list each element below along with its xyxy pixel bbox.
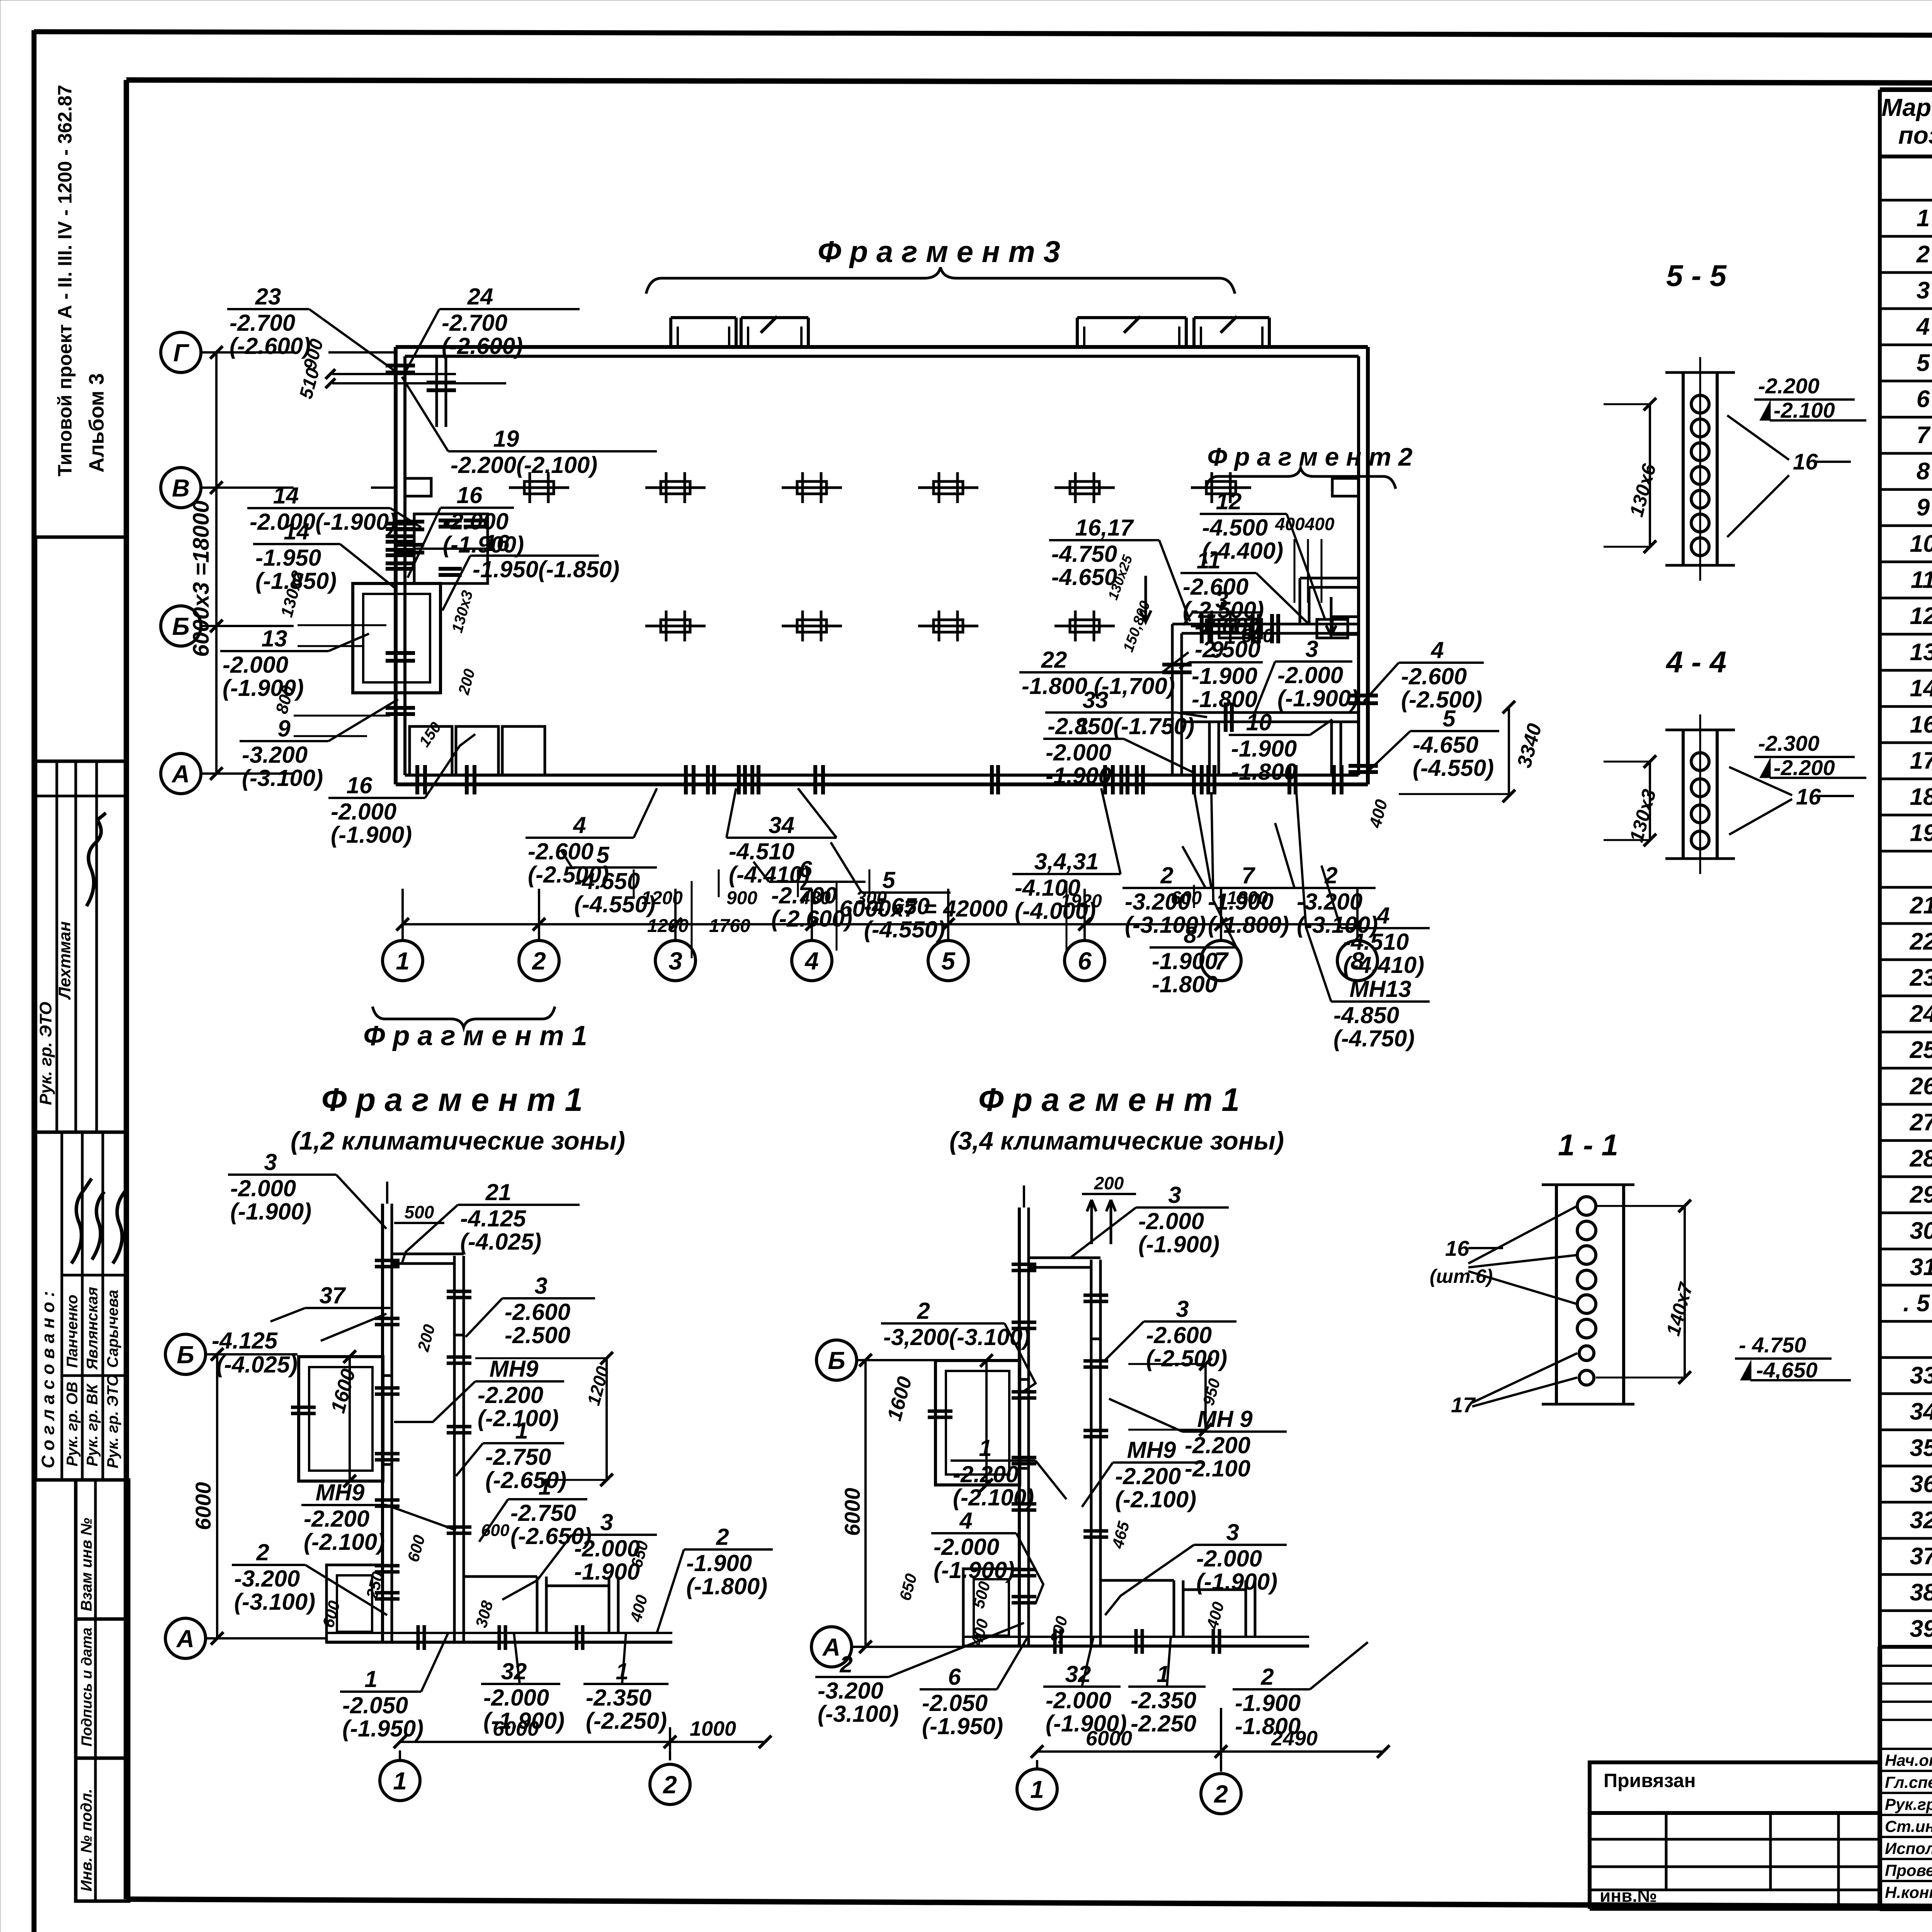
- section 4 - 4: [1665, 645, 1735, 874]
- svg-text:400400: 400400: [1275, 514, 1335, 534]
- svg-text:-4,650: -4,650: [1756, 1358, 1818, 1382]
- svg-text:26: 26: [1910, 1073, 1932, 1100]
- svg-text:1: 1: [515, 1418, 528, 1444]
- svg-text:Б: Б: [177, 1341, 194, 1369]
- svg-text:-2.000(-1.900): -2.000(-1.900): [250, 509, 396, 535]
- svg-text:33: 33: [1083, 687, 1109, 713]
- svg-text:(-4.410): (-4.410): [1343, 952, 1424, 978]
- svg-text:(-1.900): (-1.900): [1277, 685, 1359, 711]
- svg-text:5: 5: [596, 842, 610, 868]
- svg-text:4: 4: [959, 1508, 972, 1534]
- frag1R annotation 4: [931, 1508, 1043, 1604]
- svg-text:Гл.спец.: Гл.спец.: [1885, 1773, 1932, 1791]
- svg-text:(1,2 климатические зоны): (1,2 климатические зоны): [291, 1126, 625, 1155]
- svg-text:23: 23: [1910, 964, 1932, 991]
- annotation 5 bottom: [561, 842, 657, 917]
- svg-text:16: 16: [1793, 449, 1818, 474]
- annotation 4 bottom: [526, 788, 657, 888]
- svg-text:16: 16: [484, 530, 510, 556]
- svg-text:Г: Г: [173, 339, 189, 367]
- svg-text:Ф р а г м е н т 1: Ф р а г м е н т 1: [321, 1082, 583, 1118]
- svg-text:-2.700: -2.700: [442, 310, 507, 336]
- svg-text:-2.100: -2.100: [1185, 1456, 1250, 1481]
- svg-text:1200: 1200: [641, 888, 683, 908]
- svg-text:28: 28: [1910, 1145, 1932, 1172]
- plan grid row circles: [161, 332, 294, 794]
- svg-text:-2.000: -2.000: [1138, 1208, 1204, 1234]
- annotation 24: [405, 284, 580, 373]
- svg-text:-2.050: -2.050: [342, 1692, 408, 1718]
- svg-text:-2.300: -2.300: [1758, 731, 1820, 755]
- svg-text:-4.500: -4.500: [1202, 515, 1268, 541]
- svg-text:16: 16: [347, 772, 372, 798]
- svg-text:4: 4: [1916, 313, 1930, 340]
- svg-text:Панченко: Панченко: [64, 1294, 81, 1368]
- svg-text:1: 1: [396, 947, 410, 975]
- svg-text:Лехтман: Лехтман: [55, 921, 74, 1000]
- svg-text:-3.200: -3.200: [242, 742, 308, 768]
- frag1R annotation МН9: [1109, 1399, 1287, 1481]
- svg-text:14: 14: [284, 519, 310, 544]
- title block signature table: [1880, 1647, 1932, 1909]
- svg-text:Ф р а г м е н т 2: Ф р а г м е н т 2: [1207, 442, 1413, 471]
- svg-text:9: 9: [1917, 494, 1930, 521]
- svg-text:(-1.950): (-1.950): [342, 1716, 423, 1742]
- annotation 2b bottom: [1275, 823, 1378, 938]
- svg-text:(-2.100): (-2.100): [1115, 1486, 1196, 1512]
- svg-text:-2.600: -2.600: [505, 1299, 570, 1325]
- svg-text:поз.: поз.: [1898, 121, 1932, 149]
- column cross symbols row В: [509, 472, 1251, 503]
- svg-text:-2.600: -2.600: [1146, 1322, 1212, 1348]
- specification table grid: [1880, 90, 1932, 1647]
- svg-text:-2.850(-1.750): -2.850(-1.750): [1048, 713, 1194, 739]
- left margin boxes: [36, 537, 127, 1132]
- svg-text:6: 6: [1917, 386, 1930, 412]
- svg-text:-2.100: -2.100: [1774, 398, 1835, 422]
- svg-text:1: 1: [393, 1767, 407, 1795]
- fragment-1 right bottom dims: [1017, 1708, 1389, 1814]
- svg-text:2: 2: [1916, 241, 1930, 268]
- svg-text:1 - 1: 1 - 1: [1558, 1128, 1618, 1162]
- bottom dimension line 6000x7=42000: [396, 896, 1364, 930]
- svg-text:(-1.900): (-1.900): [1138, 1231, 1219, 1257]
- svg-text:19: 19: [1910, 820, 1932, 847]
- svg-text:Исполн.: Исполн.: [1885, 1839, 1932, 1857]
- svg-text:14: 14: [273, 483, 299, 509]
- table header texts: [1881, 94, 1932, 150]
- svg-text:2: 2: [917, 1298, 930, 1324]
- frag1L annotation 32 bottom: [481, 1633, 565, 1734]
- svg-text:11: 11: [1911, 566, 1932, 593]
- frag1L annotation 1b: [479, 1474, 592, 1549]
- svg-text:С о г л а с о в а н о :: С о г л а с о в а н о :: [38, 1291, 58, 1468]
- annotation 3,4,31: [1012, 788, 1121, 924]
- svg-text:-2.200: -2.200: [1115, 1463, 1181, 1489]
- fragment-1 right dim 1600: [883, 1354, 993, 1492]
- svg-text:Рук. гр. ЭТО: Рук. гр. ЭТО: [104, 1374, 121, 1468]
- svg-text:16: 16: [1796, 784, 1821, 810]
- frag1R annotation 3b: [1105, 1296, 1236, 1371]
- small dims under bottom wall: [634, 869, 1268, 958]
- svg-text:12: 12: [1216, 488, 1242, 514]
- svg-text:500: 500: [405, 1202, 434, 1222]
- section 4 - 4 dims: [1604, 731, 1866, 846]
- svg-text:2: 2: [663, 1771, 677, 1799]
- svg-text:(-2.100): (-2.100): [304, 1529, 385, 1555]
- pipe entry ticks bottom wall: [686, 765, 1296, 794]
- right side dims: [1105, 514, 1546, 830]
- svg-text:27: 27: [1910, 1109, 1932, 1136]
- svg-text:600: 600: [481, 1521, 510, 1540]
- svg-text:14: 14: [1910, 675, 1932, 702]
- annotation 34 second leader: [798, 788, 837, 838]
- annotation 3b right: [1254, 636, 1359, 715]
- svg-text:22: 22: [1910, 928, 1932, 955]
- svg-text:9: 9: [1211, 637, 1224, 663]
- svg-text:7: 7: [1242, 862, 1255, 888]
- svg-text:16: 16: [457, 482, 483, 508]
- svg-text:Ф р а г м е н т 3: Ф р а г м е н т 3: [818, 235, 1060, 269]
- svg-text:(-4.750): (-4.750): [1333, 1026, 1415, 1051]
- annotation 9 right: [1179, 637, 1263, 712]
- svg-text:(-2.100): (-2.100): [953, 1485, 1034, 1510]
- annotation МН13: [1296, 792, 1430, 1051]
- annotation 4 right: [1321, 866, 1430, 978]
- svg-text:5: 5: [1917, 350, 1930, 376]
- annotation 3 right: [1183, 587, 1261, 662]
- annotation 14: [247, 483, 421, 535]
- frag1L annotation 2r: [657, 1524, 773, 1633]
- svg-text:-2.000: -2.000: [223, 652, 288, 678]
- frag1R annotation 3c: [1105, 1519, 1287, 1615]
- frag1L annotation 37: [270, 1282, 390, 1321]
- svg-text:-2.000: -2.000: [1196, 1546, 1262, 1571]
- svg-text:2: 2: [532, 947, 546, 975]
- section 4-4 label 16: [1729, 767, 1854, 835]
- svg-text:-1.800: -1.800: [1152, 971, 1218, 997]
- svg-text:(-1.900): (-1.900): [331, 822, 412, 848]
- frag1R rotated dims: [896, 1358, 1228, 1648]
- svg-text:-4.650: -4.650: [1051, 564, 1117, 590]
- svg-text:МН9: МН9: [490, 1356, 539, 1382]
- Фрагмент 1 label: [363, 1007, 587, 1051]
- annotation 14b: [253, 519, 394, 594]
- svg-text:16,17: 16,17: [1075, 515, 1134, 541]
- svg-text:Являнская: Являнская: [84, 1287, 101, 1370]
- annotation 1 right: [1043, 713, 1192, 789]
- svg-text:Ф р а г м е н т 1: Ф р а г м е н т 1: [978, 1082, 1240, 1118]
- plan right partition walls: [1162, 578, 1378, 794]
- svg-text:(-4.550): (-4.550): [1413, 755, 1494, 781]
- svg-text:1000: 1000: [690, 1717, 736, 1740]
- top wall protrusions: [671, 316, 1269, 347]
- svg-text:(-1.950): (-1.950): [922, 1713, 1003, 1739]
- frag1R annotation 200: [1082, 1173, 1136, 1194]
- svg-text:2: 2: [1160, 862, 1173, 888]
- svg-text:Типовой проект А - II. III.: Типовой проект А - II. III. IV - 1200 - …: [54, 85, 76, 476]
- svg-text:А: А: [822, 1633, 840, 1661]
- annotation 5 far right: [1370, 706, 1499, 781]
- svg-text:-2.200: -2.200: [304, 1506, 369, 1532]
- section 5 - 5 dims: [1604, 374, 1866, 553]
- svg-text:(-4.025): (-4.025): [460, 1229, 541, 1255]
- frag1L annotation 3: [228, 1149, 386, 1229]
- frag1R annotation 2 top: [881, 1298, 1036, 1391]
- svg-text:-3.200: -3.200: [818, 1678, 883, 1704]
- svg-text:600: 600: [1171, 888, 1202, 908]
- svg-text:4: 4: [1430, 637, 1444, 663]
- svg-text:3: 3: [668, 947, 682, 975]
- svg-text:-2.000: -2.000: [1046, 1687, 1111, 1713]
- svg-text:Нач.отд: Нач.отд: [1885, 1751, 1932, 1769]
- frag1R 200 arrows: [1087, 1200, 1116, 1244]
- svg-text:-2.000: -2.000: [1046, 740, 1111, 765]
- svg-text:35: 35: [1910, 1435, 1932, 1461]
- svg-text:Рук.гр.: Рук.гр.: [1885, 1795, 1932, 1813]
- svg-text:(-1.900): (-1.900): [483, 1708, 565, 1734]
- svg-text:8: 8: [1184, 922, 1197, 948]
- svg-text:(-1.900): (-1.900): [230, 1199, 311, 1225]
- svg-text:21: 21: [1910, 892, 1932, 919]
- svg-text:-1.800: -1.800: [1235, 1713, 1301, 1739]
- svg-text:1: 1: [979, 1435, 992, 1461]
- svg-text:-1.900: -1.900: [1235, 1690, 1301, 1716]
- dim 510 900 top left: [296, 337, 506, 401]
- svg-text:3,4,31: 3,4,31: [1034, 849, 1099, 874]
- svg-text:А: А: [176, 1625, 194, 1653]
- annotation 22: [1019, 647, 1189, 699]
- svg-text:38: 38: [1910, 1579, 1932, 1606]
- svg-text:-2.000: -2.000: [483, 1685, 549, 1711]
- fragment-1 left dim 1600: [327, 1350, 360, 1488]
- svg-text:Взам инв №: Взам инв №: [78, 1518, 95, 1611]
- small rotated dims left cluster: [272, 568, 478, 750]
- frag1R annotation 3 top: [1070, 1182, 1229, 1258]
- svg-text:-2.200: -2.200: [1185, 1432, 1250, 1458]
- svg-text:-3.200: -3.200: [234, 1566, 300, 1592]
- column cross symbols row Б: [645, 611, 1251, 641]
- svg-text:9: 9: [277, 716, 291, 742]
- svg-text:-2.350: -2.350: [586, 1685, 651, 1711]
- svg-text:3: 3: [1176, 1296, 1189, 1322]
- svg-text:Инв. № подл.: Инв. № подл.: [78, 1789, 95, 1891]
- annotation 12: [1200, 488, 1325, 620]
- annotation 7 bottom: [1182, 846, 1298, 938]
- svg-text:4: 4: [1376, 903, 1389, 929]
- svg-text:Ф р а г м е н т 1: Ф р а г м е н т 1: [363, 1020, 587, 1051]
- svg-text:2: 2: [839, 1651, 852, 1677]
- svg-text:480: 480: [799, 888, 831, 908]
- svg-text:-2.000: -2.000: [331, 799, 396, 825]
- annotation 16 row2: [408, 482, 524, 578]
- svg-text:(-4.550): (-4.550): [864, 917, 945, 942]
- svg-text:2: 2: [1214, 1780, 1228, 1808]
- svg-text:(-1.800): (-1.800): [686, 1573, 767, 1599]
- svg-text:6: 6: [799, 856, 812, 882]
- svg-text:34: 34: [1910, 1398, 1932, 1425]
- svg-text:Подпись и дата: Подпись и дата: [79, 1628, 95, 1747]
- svg-text:5: 5: [941, 947, 956, 975]
- svg-text:-2.700: -2.700: [230, 310, 295, 336]
- svg-text:600: 600: [1241, 625, 1274, 646]
- plan left partition walls: [353, 356, 545, 794]
- svg-text:-1.950: -1.950: [255, 545, 321, 571]
- svg-text:-1.900: -1.900: [1152, 948, 1218, 974]
- svg-text:13: 13: [262, 626, 287, 651]
- svg-text:2: 2: [256, 1539, 269, 1565]
- svg-text:17: 17: [1451, 1393, 1476, 1417]
- svg-text:3: 3: [1226, 1519, 1239, 1545]
- annotation 13: [220, 626, 369, 701]
- svg-text:8: 8: [1917, 458, 1930, 485]
- plan grid column circles: [383, 889, 1378, 981]
- svg-text:(-2.250): (-2.250): [586, 1708, 667, 1734]
- svg-text:(-3.100): (-3.100): [234, 1589, 315, 1615]
- svg-text:-1.950(-1.850): -1.950(-1.850): [473, 556, 619, 582]
- Фрагмент 3 label: [646, 235, 1235, 294]
- frag1L annotation 1 bottom: [340, 1633, 448, 1742]
- svg-text:23: 23: [255, 284, 281, 310]
- Фрагмент 1 (1,2 зоны) title: [291, 1082, 625, 1155]
- left margin lower blocks: [76, 1480, 129, 1901]
- svg-text:6000х3 =18000: 6000х3 =18000: [189, 500, 214, 657]
- svg-text:(-2.600): (-2.600): [771, 906, 852, 932]
- svg-text:1: 1: [364, 1666, 377, 1692]
- svg-text:5 - 5: 5 - 5: [1666, 259, 1727, 293]
- svg-text:16: 16: [1445, 1236, 1469, 1260]
- svg-text:(3,4 климатические зоны): (3,4 климатические зоны): [949, 1126, 1284, 1155]
- svg-text:4: 4: [573, 812, 586, 838]
- fragment-1 left walls: [291, 1182, 672, 1650]
- svg-text:-2.350: -2.350: [1131, 1687, 1196, 1713]
- svg-text:36: 36: [1910, 1471, 1932, 1497]
- svg-text:-1.800: -1.800: [1231, 759, 1297, 785]
- svg-text:Рук. гр. ЭТО: Рук. гр. ЭТО: [36, 1002, 55, 1105]
- section 5 - 5: [1665, 259, 1735, 581]
- frag1L annotation 3c: [502, 1509, 657, 1600]
- frag1L rotated dims: [319, 1322, 652, 1629]
- svg-text:12: 12: [1910, 603, 1932, 629]
- svg-text:Привязан: Привязан: [1604, 1770, 1696, 1791]
- svg-text:-4.125: -4.125: [212, 1328, 278, 1354]
- svg-text:37: 37: [320, 1282, 346, 1308]
- Фрагмент 1 (3,4 зоны) title: [949, 1082, 1284, 1155]
- svg-text:22: 22: [1041, 647, 1067, 673]
- svg-text:Рук. гр. ВК: Рук. гр. ВК: [84, 1383, 101, 1466]
- svg-text:2: 2: [1260, 1664, 1274, 1690]
- frag1L annotation МН9b: [301, 1480, 456, 1555]
- svg-text:-1.900: -1.900: [1192, 663, 1257, 689]
- frag1R annotation 2 bottom: [815, 1623, 1024, 1727]
- svg-text:1: 1: [1076, 713, 1089, 739]
- svg-text:-2.750: -2.750: [485, 1444, 551, 1470]
- svg-text:-2.000: -2.000: [230, 1175, 296, 1201]
- svg-text:(-2.500): (-2.500): [1401, 687, 1482, 713]
- svg-text:4: 4: [804, 947, 819, 975]
- svg-text:10: 10: [1910, 531, 1932, 557]
- fragment-1 right grid circles: [811, 1340, 963, 1667]
- svg-text:3: 3: [600, 1509, 613, 1535]
- svg-text:6000: 6000: [840, 1488, 864, 1536]
- svg-text:-2.200: -2.200: [1774, 755, 1835, 780]
- svg-text:3: 3: [1917, 277, 1930, 304]
- svg-text:Н.контр: Н.контр: [1885, 1883, 1932, 1901]
- svg-text:33: 33: [1910, 1362, 1932, 1389]
- svg-text:А: А: [171, 760, 190, 788]
- svg-text:6000: 6000: [191, 1482, 215, 1530]
- svg-text:-1.900: -1.900: [1046, 763, 1111, 789]
- Фрагмент 2 label: [1206, 442, 1413, 489]
- frag1L annotation 1: [456, 1418, 566, 1493]
- svg-text:1: 1: [1030, 1776, 1044, 1803]
- section 1-1: [1542, 1128, 1634, 1404]
- svg-text:13: 13: [1910, 639, 1932, 666]
- annotation 2 bottom: [1122, 790, 1211, 938]
- svg-text:-2.250: -2.250: [1131, 1711, 1196, 1736]
- svg-text:18: 18: [1910, 784, 1932, 810]
- frag1L annotation 1b bottom: [583, 1633, 668, 1734]
- annotation 8 bottom: [1150, 792, 1236, 997]
- svg-text:17: 17: [1910, 747, 1932, 774]
- svg-text:-1.900: -1.900: [686, 1550, 752, 1576]
- svg-text:24: 24: [1910, 1001, 1932, 1027]
- svg-text:11: 11: [1197, 548, 1221, 573]
- annotation 10: [1229, 709, 1332, 785]
- svg-text:-2.200(-2.100): -2.200(-2.100): [451, 452, 597, 478]
- annotation 16 bottom: [328, 734, 475, 848]
- svg-text:5: 5: [1442, 706, 1456, 731]
- svg-text:16: 16: [1910, 711, 1932, 738]
- svg-text:Марка,: Марка,: [1881, 94, 1932, 121]
- svg-text:900: 900: [726, 888, 757, 908]
- svg-text:-1.800: -1.800: [1192, 686, 1257, 712]
- svg-text:Альбом 3: Альбом 3: [85, 373, 108, 473]
- svg-text:-2.500: -2.500: [505, 1322, 570, 1348]
- svg-text:Рук. гр. ОВ: Рук. гр. ОВ: [64, 1382, 81, 1466]
- annotation 5b bottom: [831, 842, 951, 942]
- fragment-1 left bottom dims: [380, 1717, 771, 1804]
- frag1R annotation МН9b: [1082, 1437, 1202, 1512]
- frag1L annotation 3b: [466, 1273, 595, 1348]
- svg-text:29: 29: [1910, 1182, 1932, 1208]
- svg-text:-2.050: -2.050: [922, 1690, 988, 1716]
- frag1R annotation 6 bottom: [920, 1637, 1028, 1739]
- svg-text:-4.510: -4.510: [1343, 929, 1409, 955]
- annotation 9: [240, 699, 398, 791]
- wall pilasters row В/Б: [371, 478, 1359, 634]
- svg-text:(-1.900): (-1.900): [934, 1557, 1015, 1583]
- svg-text:32: 32: [1910, 1507, 1932, 1534]
- svg-text:Ст.инж.: Ст.инж.: [1885, 1817, 1932, 1835]
- svg-text:200: 200: [1094, 1173, 1124, 1193]
- annotation 33: [1045, 687, 1207, 739]
- svg-text:-2.200: -2.200: [1758, 374, 1820, 398]
- svg-text:2: 2: [716, 1524, 729, 1550]
- svg-text:25: 25: [1910, 1037, 1932, 1063]
- svg-text:-4.850: -4.850: [1333, 1002, 1399, 1028]
- svg-text:3: 3: [1305, 636, 1318, 662]
- svg-text:(-2.500): (-2.500): [1146, 1345, 1227, 1371]
- svg-text:3: 3: [534, 1273, 547, 1299]
- svg-text:39: 39: [1910, 1616, 1932, 1642]
- svg-text:37: 37: [1910, 1543, 1932, 1570]
- svg-text:24: 24: [467, 284, 493, 310]
- svg-text:19: 19: [493, 426, 519, 452]
- section 1-1 labels 16 17: [1430, 1206, 1577, 1417]
- svg-text:1: 1: [1917, 205, 1930, 231]
- svg-text:6: 6: [1078, 947, 1092, 975]
